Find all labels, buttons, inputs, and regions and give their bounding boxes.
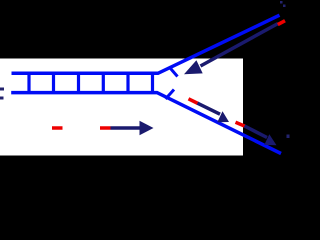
Okazaki fragment 1 arrowhead [217,111,229,122]
base-pair rung 1 [27,72,30,94]
clipped label at top-right [280,1,283,4]
template strand top (ladder top line + upper branch) [12,15,280,73]
clipped 5' label at left edge [0,97,4,100]
Okazaki fragment 1 RNA primer (red) [189,99,199,104]
base-pair rung 3 [77,72,80,94]
base-pair rung 5 [126,72,129,94]
unpaired base stub on upper branch [169,67,178,77]
background (transparent area stored as black) [0,0,290,172]
Okazaki fragment 1 shaft (navy) [198,103,221,114]
legend RNA primer dash [52,126,63,130]
base-pair rung 4 [102,72,105,94]
clipped 3' label at left edge [0,88,4,91]
leading strand arrow shaft (navy) [201,24,279,67]
unpaired base stub on lower branch [166,90,175,100]
clipped mark right edge [287,135,290,139]
white drawing canvas region [0,59,243,156]
DNA replication fork diagram [0,0,290,172]
legend arrowhead [140,121,154,135]
Okazaki fragment 2 shaft (navy) [245,126,268,138]
base-pair rung 6 [151,72,154,94]
legend new-strand arrow shaft [111,126,141,130]
base-pair rung 2 [52,72,55,94]
legend new-strand primer dash [100,126,111,130]
leading strand arrowhead [184,60,203,74]
Okazaki fragment 2 arrowhead [264,134,276,145]
Okazaki fragment 2 RNA primer (red) [236,122,246,126]
template strand bottom (ladder bottom line + lower branch) [11,93,281,154]
leading strand RNA primer (red) [278,21,285,25]
